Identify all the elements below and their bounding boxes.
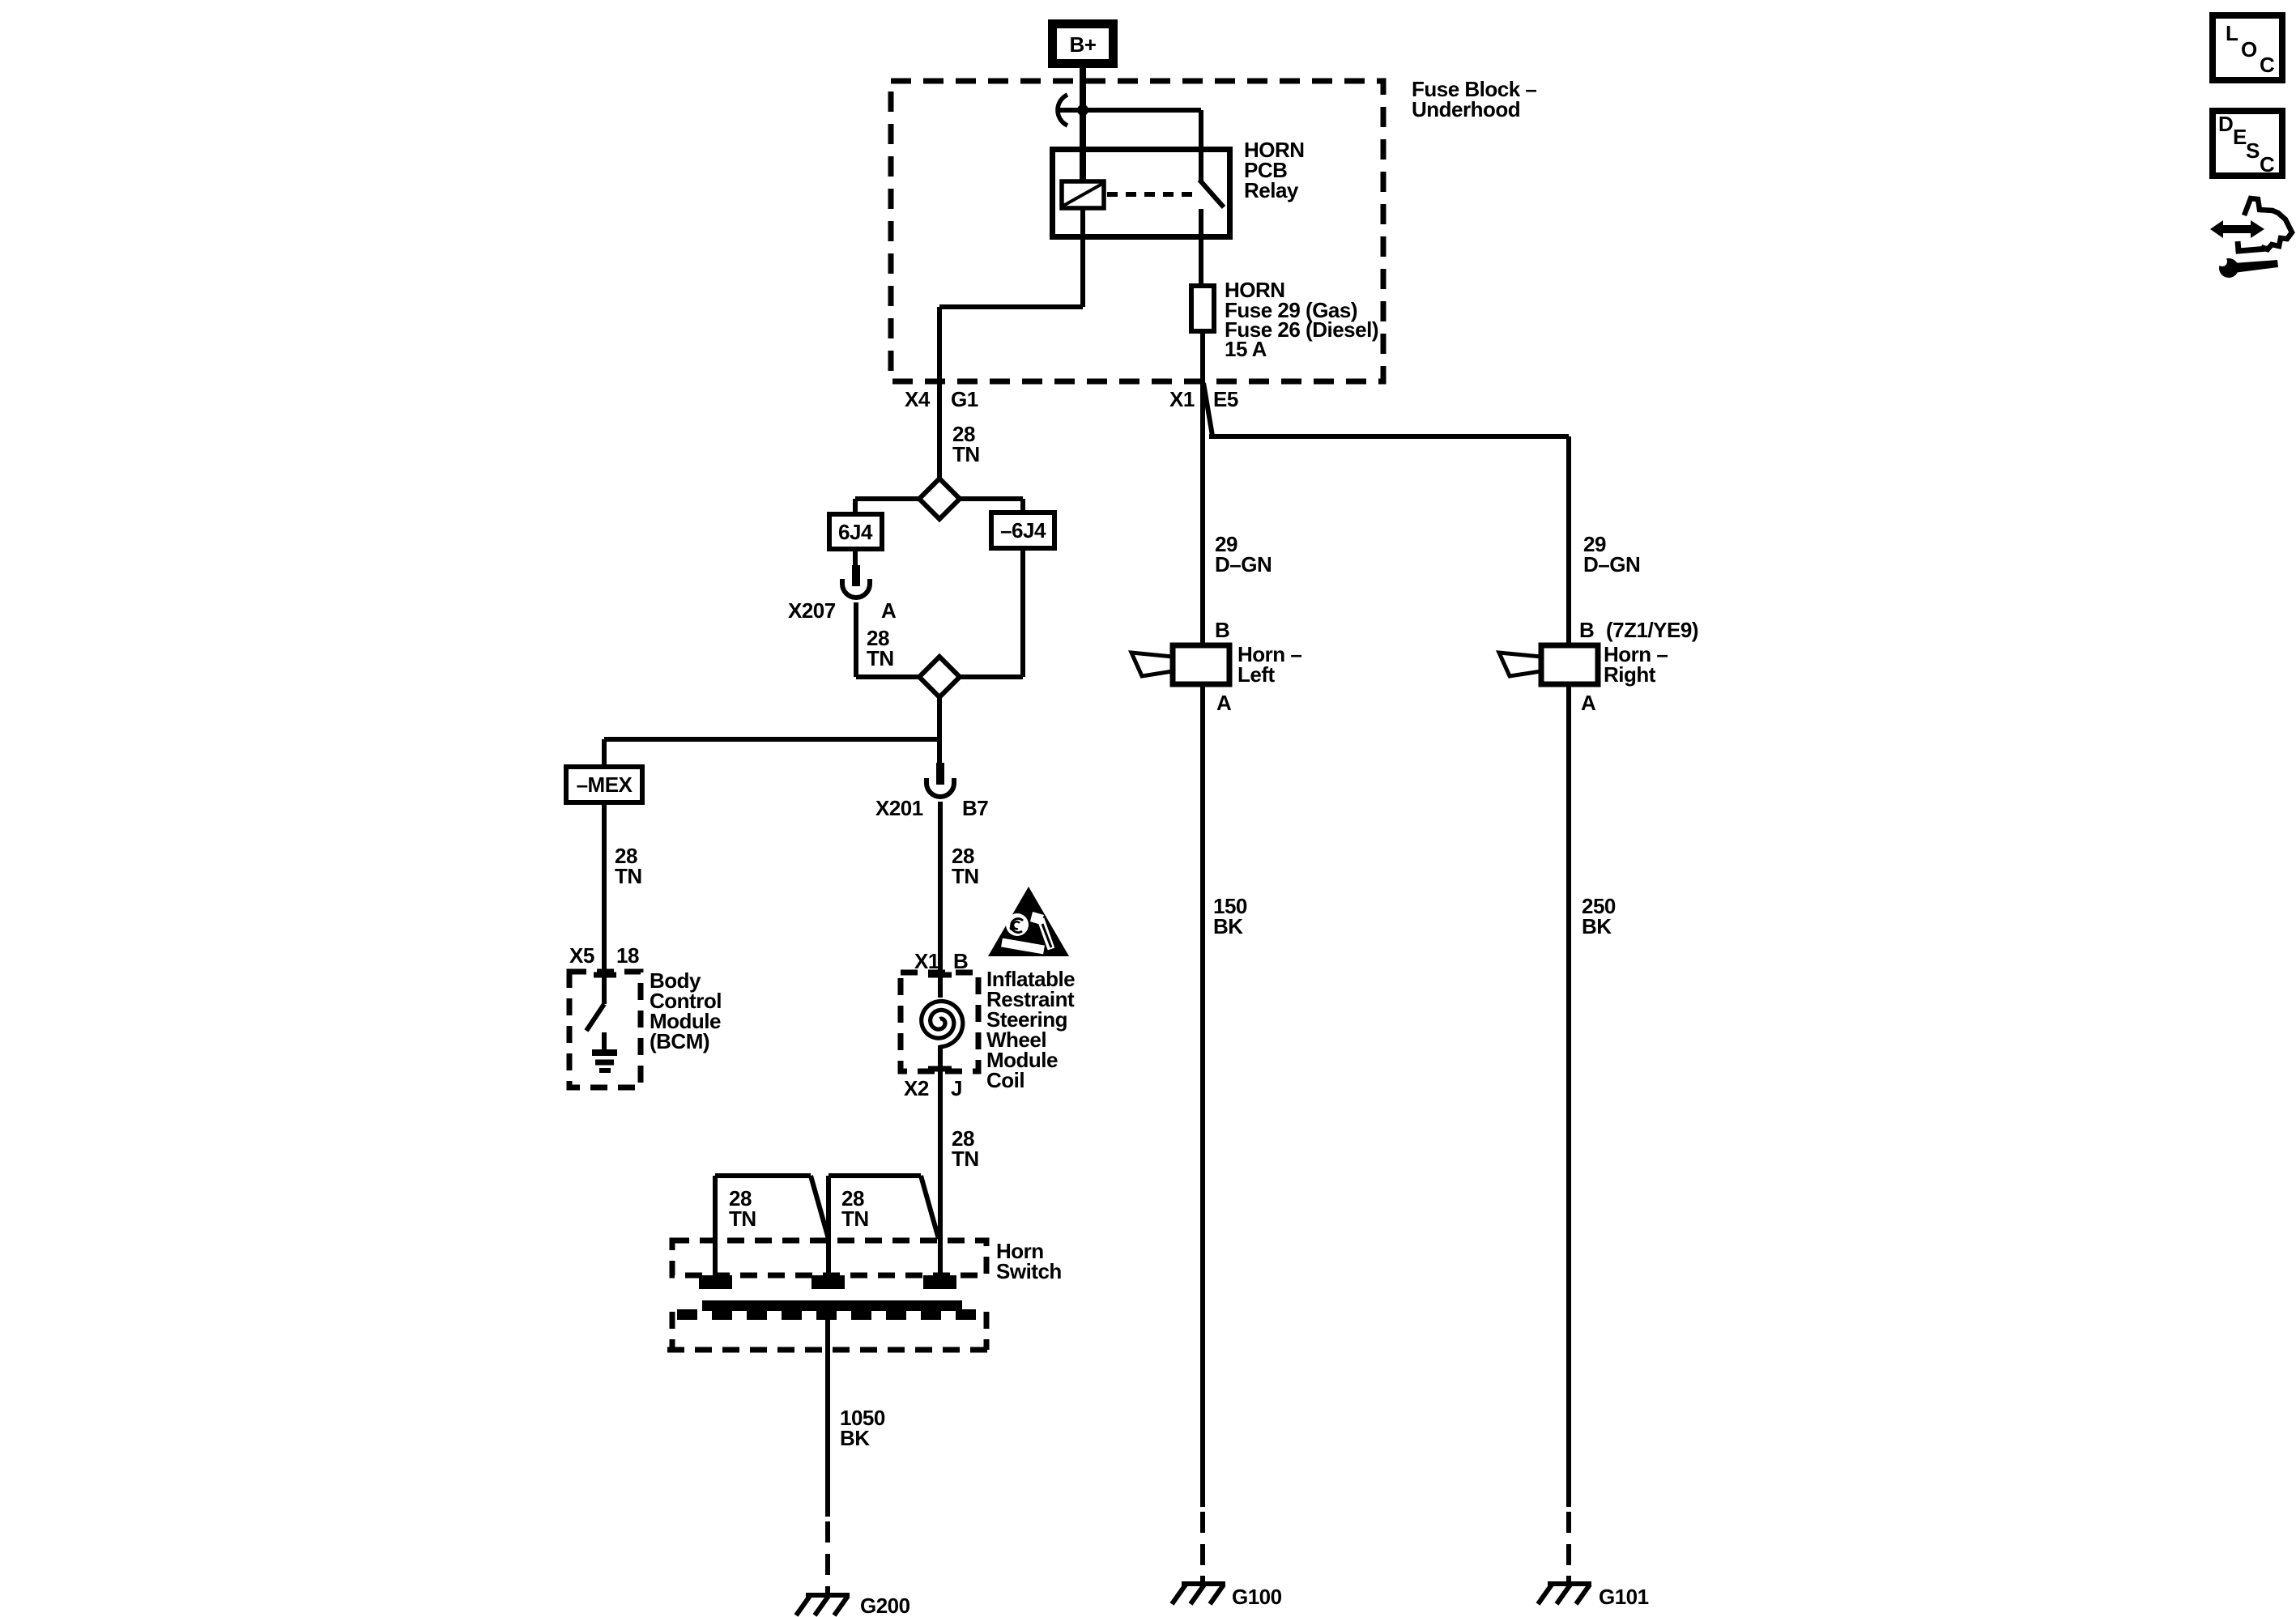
relay K1 HORN PCB Relay box	[1053, 138, 1305, 237]
svg-text:B: B	[1579, 618, 1594, 642]
labels X207 A	[788, 598, 897, 623]
connector label X1 B	[914, 949, 968, 973]
svg-text:C: C	[2260, 53, 2275, 77]
svg-text:S: S	[2246, 138, 2260, 163]
wire splice to 6J4	[855, 499, 919, 514]
svg-text:Left: Left	[1237, 662, 1276, 687]
svg-text:X5: X5	[569, 943, 594, 968]
horn switch contact lead 2	[829, 1176, 939, 1276]
ground G101	[1538, 1584, 1649, 1609]
svg-text:G101: G101	[1599, 1585, 1649, 1609]
svg-text:L: L	[2226, 21, 2238, 45]
svg-text:Right: Right	[1604, 662, 1656, 687]
wire label 250 BK	[1582, 894, 1616, 938]
net tag -MEX	[566, 767, 642, 802]
svg-text:BK: BK	[1213, 914, 1243, 938]
svg-text:TN: TN	[952, 1147, 979, 1171]
wire label 28 TN (MEX branch)	[615, 844, 642, 888]
svg-text:BK: BK	[840, 1426, 870, 1450]
svg-text:X1: X1	[1169, 387, 1195, 411]
wire branch from junction to relay switch	[1083, 110, 1201, 181]
svg-text:A: A	[1581, 691, 1596, 715]
net tag 6J4	[829, 514, 882, 549]
BCM dashed box	[569, 968, 722, 1087]
fuse block underhood dashed box	[891, 77, 1536, 381]
wire relay bottom to X4 G1 exit	[939, 307, 1083, 479]
svg-text:Switch: Switch	[996, 1259, 1062, 1283]
BCM internal switch	[586, 1004, 604, 1031]
BCM internal ground	[592, 1032, 617, 1070]
svg-text:J: J	[951, 1076, 962, 1100]
horn switch dashed box	[672, 1239, 1062, 1283]
wire label 28 TN (X207)	[867, 626, 894, 670]
DESC legend box	[2213, 111, 2282, 177]
svg-text:TN: TN	[729, 1206, 756, 1231]
horn switch lower dashed box	[667, 1312, 991, 1350]
svg-text:E5: E5	[1213, 387, 1238, 411]
svg-text:–MEX: –MEX	[577, 772, 633, 797]
wire X201 to coil, label 28 TN	[940, 802, 979, 998]
svg-text:G1: G1	[951, 387, 978, 411]
wire horn left to G100	[1200, 684, 1205, 1585]
wire label 1050 BK	[840, 1406, 885, 1450]
wire switch to G200	[825, 1311, 830, 1596]
net tag -6J4	[991, 513, 1054, 548]
svg-text:B: B	[1215, 618, 1229, 642]
svg-text:G100: G100	[1232, 1585, 1282, 1609]
wire splice to -6J4	[960, 499, 1023, 513]
svg-text:D: D	[2218, 112, 2233, 136]
svg-text:Coil: Coil	[986, 1068, 1024, 1092]
ground G100	[1172, 1584, 1282, 1609]
connector label X1 E5	[1169, 387, 1238, 411]
svg-text:E: E	[2233, 125, 2247, 149]
horn switch fixed contacts	[699, 1275, 956, 1289]
svg-text:D–GN: D–GN	[1215, 552, 1272, 577]
wire splice down to X201	[937, 697, 942, 763]
battery feed B+	[1053, 24, 1114, 64]
clockspring coil spiral	[922, 1002, 963, 1048]
svg-text:15 A: 15 A	[1225, 337, 1267, 361]
svg-text:–6J4: –6J4	[1000, 518, 1046, 543]
wire horn right to G101	[1566, 684, 1571, 1585]
service icon: hand with arrow and wrench	[2210, 198, 2292, 278]
svg-text:Relay: Relay	[1244, 178, 1299, 202]
LOC legend box	[2213, 15, 2282, 80]
svg-text:TN: TN	[952, 442, 980, 466]
relay coil	[1062, 181, 1104, 208]
junction node on B+ wire	[1077, 104, 1088, 116]
wire label 28 TN (X4 branch)	[952, 422, 980, 466]
wire 6J4 to X207 pin	[853, 549, 858, 567]
svg-text:G200: G200	[860, 1594, 910, 1617]
wire fuse to horns	[1203, 334, 1569, 645]
steering wheel module coil dashed box	[901, 967, 1075, 1092]
wire coil to horn switch	[938, 1045, 943, 1276]
horn right device	[1499, 642, 1668, 687]
wire B+ down to relay coil	[1080, 63, 1086, 307]
connector X201 pin and socket	[926, 763, 954, 797]
svg-text:18: 18	[616, 943, 639, 968]
connector label X2 J	[904, 1076, 962, 1100]
svg-text:(BCM): (BCM)	[650, 1029, 709, 1053]
wire label 29 D-GN right	[1583, 532, 1640, 577]
relay control dashed link	[1107, 192, 1195, 197]
horn switch contact lead 1	[715, 1176, 829, 1276]
relay switch blade (NO contact)	[1199, 180, 1224, 283]
svg-text:X207: X207	[788, 598, 836, 623]
splice diamond upper	[919, 479, 960, 519]
connector label X5 18	[569, 943, 639, 968]
svg-text:6J4: 6J4	[838, 520, 873, 544]
svg-text:TN: TN	[841, 1206, 869, 1231]
pin label B right and RPO tag	[1579, 618, 1698, 642]
fuse HORN Fuse 29/26 15A	[1191, 278, 1378, 361]
svg-text:D–GN: D–GN	[1583, 552, 1640, 577]
svg-text:Underhood: Underhood	[1412, 97, 1520, 121]
svg-text:TN: TN	[867, 646, 894, 670]
svg-text:A: A	[1216, 691, 1232, 715]
svg-text:BK: BK	[1582, 914, 1612, 938]
horn left device	[1131, 642, 1301, 687]
svg-text:B+: B+	[1070, 32, 1097, 57]
wire label 150 BK	[1213, 894, 1247, 938]
svg-text:X201: X201	[875, 796, 923, 820]
svg-text:TN: TN	[615, 864, 642, 888]
wire -MEX to BCM	[602, 802, 607, 1004]
svg-text:B7: B7	[962, 796, 988, 820]
svg-text:X4: X4	[905, 387, 931, 411]
airbag caution triangle	[988, 887, 1069, 956]
ground G200	[796, 1594, 910, 1617]
wire X207 to splice lower	[856, 602, 919, 677]
wire branch to -MEX	[604, 739, 939, 767]
wire -6J4 to splice lower	[960, 548, 1023, 677]
wire label 29 D-GN left	[1215, 532, 1272, 577]
svg-text:X2: X2	[904, 1076, 929, 1100]
svg-text:A: A	[881, 598, 897, 623]
svg-text:O: O	[2241, 37, 2257, 62]
horn switch moving contact bar	[677, 1300, 976, 1320]
svg-text:(7Z1/YE9): (7Z1/YE9)	[1606, 618, 1698, 642]
bus bar tap arc at B+	[1058, 95, 1080, 126]
splice diamond lower	[919, 657, 960, 697]
connector label X4 G1	[905, 387, 978, 411]
wire label 28 TN (coil to switch)	[952, 1126, 979, 1171]
svg-text:C: C	[2260, 152, 2275, 177]
connector X207 pin and socket	[842, 565, 870, 598]
labels X201 B7	[875, 796, 988, 820]
svg-text:TN: TN	[952, 864, 979, 888]
